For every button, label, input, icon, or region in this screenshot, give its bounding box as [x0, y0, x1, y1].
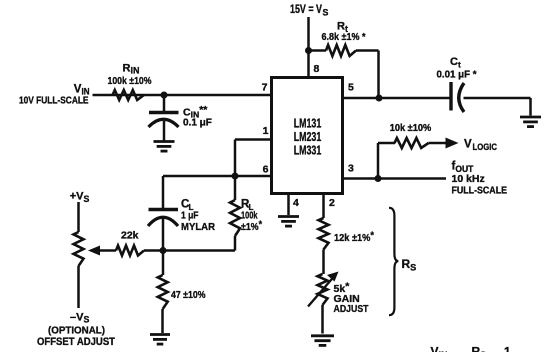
svg-text:1: 1: [263, 125, 269, 137]
svg-text:8: 8: [314, 63, 320, 75]
svg-text:ADJUST: ADJUST: [334, 303, 369, 315]
svg-text:12k ±1%*: 12k ±1%*: [334, 230, 375, 244]
svg-text:S: S: [323, 7, 329, 17]
svg-text:LM331: LM331: [294, 143, 322, 158]
svg-text:6.8k ±1% *: 6.8k ±1% *: [322, 32, 366, 43]
svg-text:100k ±10%: 100k ±10%: [108, 76, 152, 87]
svg-text:5: 5: [348, 82, 354, 94]
svg-text:2: 2: [329, 197, 335, 209]
svg-text:7: 7: [262, 82, 268, 94]
svg-text:22k: 22k: [121, 230, 139, 242]
svg-text:47 ±10%: 47 ±10%: [171, 289, 206, 301]
svg-text:0.01 μF *: 0.01 μF *: [437, 70, 477, 81]
svg-text:FULL-SCALE: FULL-SCALE: [452, 186, 508, 197]
svg-text:3: 3: [348, 163, 354, 175]
svg-text:6: 6: [263, 164, 269, 176]
svg-text:1 μF: 1 μF: [181, 210, 199, 222]
svg-text:100k: 100k: [241, 210, 258, 222]
svg-text:10 kHz: 10 kHz: [452, 173, 485, 185]
svg-text:0.1 μF: 0.1 μF: [183, 118, 212, 129]
svg-text:4: 4: [293, 197, 299, 209]
svg-text:MYLAR: MYLAR: [181, 221, 215, 233]
svg-text:10V FULL-SCALE: 10V FULL-SCALE: [19, 96, 89, 107]
svg-text:(OPTIONAL): (OPTIONAL): [48, 326, 105, 337]
svg-text:OFFSET ADJUST: OFFSET ADJUST: [37, 336, 115, 348]
svg-text:10k ±10%: 10k ±10%: [390, 123, 432, 134]
svg-text:1: 1: [504, 344, 511, 352]
svg-text:15V = V: 15V = V: [290, 4, 322, 16]
